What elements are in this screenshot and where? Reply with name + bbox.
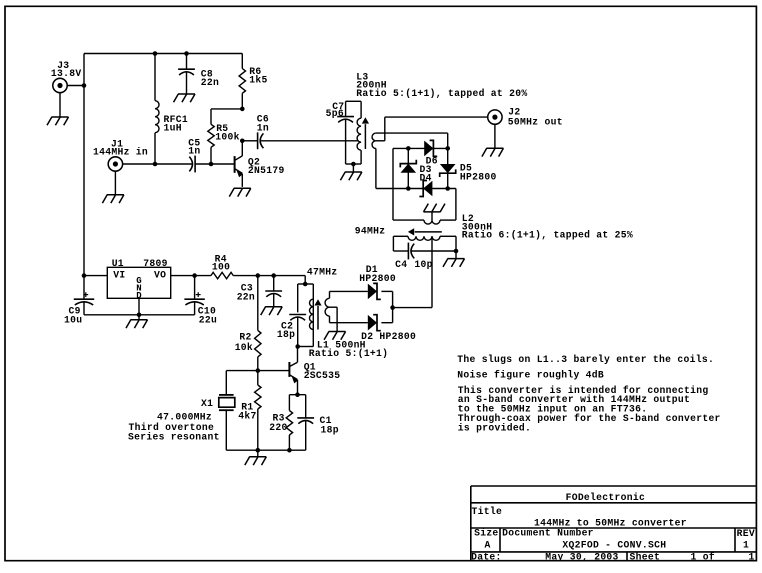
svg-text:47.000MHz: 47.000MHz <box>157 412 212 423</box>
svg-text:144MHz in: 144MHz in <box>93 146 148 157</box>
svg-text:10p: 10p <box>414 259 432 270</box>
svg-text:Ratio 6:(1+1), tapped at 25%: Ratio 6:(1+1), tapped at 25% <box>462 230 633 241</box>
svg-text:2N5179: 2N5179 <box>248 165 285 176</box>
svg-text:C4: C4 <box>395 259 407 270</box>
svg-text:A: A <box>485 540 491 551</box>
svg-text:D: D <box>136 291 142 301</box>
svg-text:Noise figure roughly 4dB: Noise figure roughly 4dB <box>457 370 604 381</box>
svg-text:VO: VO <box>154 270 166 281</box>
svg-text:VI: VI <box>113 270 125 281</box>
svg-text:94MHz: 94MHz <box>355 226 386 237</box>
svg-text:May 30, 2003: May 30, 2003 <box>545 552 618 563</box>
svg-text:22n: 22n <box>237 292 255 303</box>
svg-text:Date:: Date: <box>471 552 502 563</box>
svg-text:10k: 10k <box>235 342 253 353</box>
svg-text:Title: Title <box>472 506 503 517</box>
svg-text:5p6: 5p6 <box>326 108 344 119</box>
svg-text:22u: 22u <box>199 314 217 325</box>
svg-text:18p: 18p <box>277 329 295 340</box>
svg-text:D2 HP2800: D2 HP2800 <box>361 331 416 342</box>
svg-text:1n: 1n <box>188 145 200 156</box>
svg-text:U1: U1 <box>112 258 124 269</box>
svg-text:1 of: 1 of <box>691 552 715 563</box>
svg-text:1n: 1n <box>257 122 269 133</box>
svg-text:100: 100 <box>212 261 230 272</box>
svg-text:Sheet: Sheet <box>630 552 661 563</box>
svg-text:2SC535: 2SC535 <box>304 370 341 381</box>
svg-text:The slugs on L1..3 barely ente: The slugs on L1..3 barely enter the coil… <box>457 354 714 365</box>
svg-text:13.8V: 13.8V <box>51 68 82 79</box>
svg-text:4k7: 4k7 <box>238 411 256 422</box>
svg-text:22n: 22n <box>201 77 219 88</box>
svg-text:FODelectronic: FODelectronic <box>566 492 645 503</box>
svg-text:Series resonant: Series resonant <box>128 431 220 442</box>
svg-text:R2: R2 <box>239 332 251 343</box>
svg-text:REV: REV <box>737 528 755 539</box>
svg-text:18p: 18p <box>321 425 339 436</box>
svg-text:D4: D4 <box>420 172 432 183</box>
svg-text:Document Number: Document Number <box>502 528 594 539</box>
svg-text:100k: 100k <box>215 132 239 143</box>
svg-text:220: 220 <box>269 422 287 433</box>
svg-text:is provided.: is provided. <box>458 422 531 433</box>
svg-text:50MHz out: 50MHz out <box>508 116 563 127</box>
svg-text:X1: X1 <box>201 398 213 409</box>
svg-text:HP2800: HP2800 <box>359 273 396 284</box>
svg-text:Ratio 5:(1+1), tapped at 20%: Ratio 5:(1+1), tapped at 20% <box>356 88 527 99</box>
svg-text:XQ2FOD - CONV.SCH: XQ2FOD - CONV.SCH <box>562 540 666 551</box>
svg-text:1: 1 <box>749 552 755 563</box>
svg-text:1: 1 <box>743 540 749 551</box>
svg-text:7809: 7809 <box>143 258 167 269</box>
svg-text:HP2800: HP2800 <box>460 172 497 183</box>
svg-text:47MHz: 47MHz <box>307 266 338 277</box>
svg-text:10u: 10u <box>64 314 82 325</box>
svg-text:1uH: 1uH <box>164 123 182 134</box>
svg-text:Size: Size <box>474 528 498 539</box>
svg-text:Ratio 5:(1+1): Ratio 5:(1+1) <box>309 348 388 359</box>
svg-text:1k5: 1k5 <box>249 75 267 86</box>
